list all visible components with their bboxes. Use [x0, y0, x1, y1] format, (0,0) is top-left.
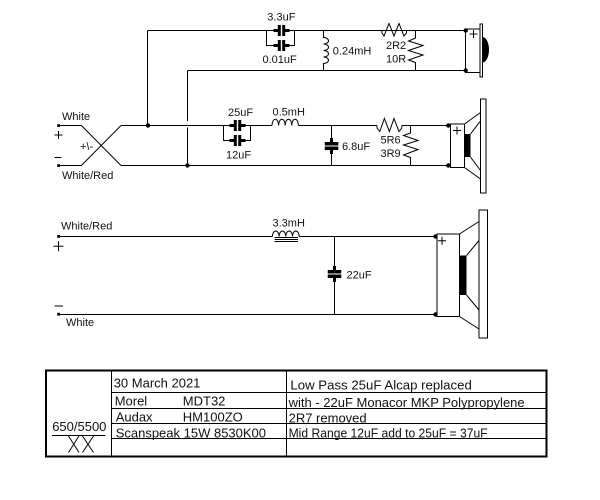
resistor R2 10R (vertical): [409, 31, 424, 71]
svg-text:30 March 2021: 30 March 2021: [114, 376, 201, 391]
capacitor C4 12uF parallel branch: [224, 126, 251, 141]
svg-text:Morel: Morel: [115, 394, 148, 409]
resistor R3 5R6 (horizontal): [377, 119, 402, 132]
wire mid bottom rail: [121, 165, 449, 167]
wire tweeter top rail: [148, 30, 466, 32]
svg-text:10R: 10R: [386, 54, 406, 66]
table outer border: [46, 371, 547, 457]
resistor R1 2R2 (horizontal): [382, 24, 407, 37]
svg-text:MDT32: MDT32: [183, 394, 226, 409]
table column line 2: [286, 371, 288, 457]
woofer voice coil: [460, 256, 467, 296]
woofer terminal dots: [433, 234, 437, 316]
capacitor C5 6.8uF (vertical): [331, 126, 333, 166]
svg-text:+\-: +\-: [80, 141, 93, 153]
capacitor C2 0.01uF parallel branch: [267, 31, 295, 46]
woofer cone lines: [460, 222, 480, 330]
input terminal + (woofer): [57, 235, 60, 238]
svg-text:3R9: 3R9: [381, 148, 401, 160]
capacitor C3 25uF: [230, 120, 246, 131]
woofer U3 body: [437, 234, 460, 317]
midrange plus sign: [453, 127, 461, 135]
svg-text:White/Red: White/Red: [61, 221, 112, 233]
capacitor C1 3.3uF: [274, 25, 290, 36]
svg-text:HM100ZO: HM100ZO: [183, 410, 243, 425]
plus sign woofer input: [54, 241, 64, 251]
input terminal - (woofer): [57, 313, 60, 316]
crossover symbol: [52, 436, 106, 453]
inductor L3 3.3mH (horizontal with core): [272, 231, 299, 242]
svg-text:Low Pass 25uF Alcap replaced: Low Pass 25uF Alcap replaced: [290, 378, 471, 393]
midrange voice coil: [465, 134, 471, 157]
midrange terminal dots: [446, 123, 450, 167]
wire tweeter bottom rail: [188, 70, 466, 72]
tweeter terminal dots: [464, 28, 468, 72]
input terminal - (mid): [57, 164, 60, 167]
wire mid top rail: [121, 125, 449, 127]
svg-text:25uF: 25uF: [228, 107, 253, 119]
table row lines: [112, 393, 547, 439]
minus sign mid input: [55, 157, 62, 159]
svg-text:Mid Range 12uF add to 25uF = 3: Mid Range 12uF add to 25uF = 37uF: [289, 426, 488, 441]
svg-text:White: White: [66, 317, 94, 329]
midrange cone lines: [465, 113, 481, 180]
inductor L2 0.5mH (horizontal): [272, 119, 298, 125]
svg-text:Audax: Audax: [116, 410, 153, 425]
svg-text:3.3mH: 3.3mH: [273, 218, 305, 230]
junction node A (top rail / tweeter feed): [146, 123, 150, 127]
woofer faceplate: [479, 210, 488, 338]
input terminal + (mid): [57, 124, 60, 127]
junction node B (bottom rail / tweeter return): [185, 163, 189, 167]
svg-text:White: White: [62, 111, 90, 123]
table column line 1: [111, 371, 113, 457]
plus sign mid input: [55, 131, 63, 139]
svg-text:2R2: 2R2: [386, 40, 406, 52]
svg-text:650/5500: 650/5500: [52, 419, 106, 434]
svg-text:0.5mH: 0.5mH: [273, 107, 305, 119]
svg-text:22uF: 22uF: [347, 270, 372, 282]
minus sign woofer input: [55, 305, 64, 307]
tweeter dome: [483, 37, 490, 63]
svg-text:5R6: 5R6: [381, 135, 401, 147]
midrange faceplate: [481, 99, 487, 193]
midrange U2 body: [451, 124, 465, 168]
wire woofer bottom rail: [60, 314, 436, 316]
wire vertical from tweeter bottom rail to mid bottom rail (break at crossing): [187, 71, 189, 166]
woofer plus sign: [438, 237, 446, 245]
tweeter U1 body: [466, 24, 483, 77]
wire vertical from tweeter top rail to mid top rail: [147, 31, 149, 126]
svg-text:Scanspeak 15W 8530K00: Scanspeak 15W 8530K00: [116, 426, 266, 441]
inductor L1 0.24mH (vertical): [324, 31, 329, 71]
svg-text:0.24mH: 0.24mH: [333, 46, 372, 58]
tweeter plus sign: [470, 30, 478, 38]
svg-text:0.01uF: 0.01uF: [263, 54, 298, 66]
svg-text:White/Red: White/Red: [62, 170, 113, 182]
svg-text:6.8uF: 6.8uF: [342, 141, 370, 153]
svg-text:2R7 removed: 2R7 removed: [289, 411, 367, 426]
svg-text:with - 22uF Monacor MKP Polypr: with - 22uF Monacor MKP Polypropylene: [288, 395, 525, 410]
capacitor C6 22uF (vertical): [334, 237, 336, 315]
svg-text:3.3uF: 3.3uF: [267, 12, 295, 24]
svg-text:12uF: 12uF: [226, 150, 251, 162]
resistor R4 3R9 (vertical): [404, 126, 419, 166]
wire mid input crossing X: [59, 126, 121, 166]
wire woofer top rail: [60, 236, 436, 238]
